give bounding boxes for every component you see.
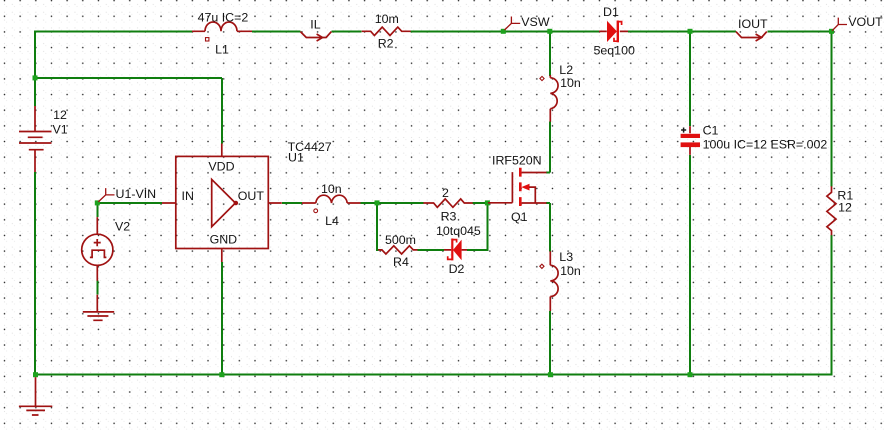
- svg-text:C1: C1: [703, 124, 719, 138]
- current probe IOUT: [736, 32, 767, 41]
- svg-text:GND: GND: [210, 232, 238, 246]
- wire vdd feed: [35, 78, 222, 144]
- source V2: [82, 217, 113, 281]
- svg-text:100u IC=12 ESR=.002: 100u IC=12 ESR=.002: [703, 137, 828, 151]
- diode D1: [599, 21, 628, 43]
- wire u1 gnd drop: [221, 262, 223, 375]
- node junction C1 top: [688, 29, 693, 34]
- svg-text:10n: 10n: [560, 264, 581, 278]
- net flag U1-VIN: [98, 188, 114, 202]
- wire signal row: [97, 202, 488, 204]
- svg-text:V1: V1: [53, 123, 68, 137]
- svg-text:Q1: Q1: [511, 210, 528, 224]
- wire r4 d2 branch: [377, 202, 487, 251]
- svg-text:L4: L4: [325, 214, 339, 228]
- svg-text:D2: D2: [449, 262, 465, 276]
- op-amp driver U1 TC4427: [162, 144, 282, 263]
- svg-text:10n: 10n: [321, 182, 342, 196]
- svg-text:10m: 10m: [375, 12, 399, 26]
- svg-text:2: 2: [442, 186, 449, 200]
- resistor R1: [827, 186, 836, 235]
- wire vsw branch: [546, 31, 550, 375]
- wire left rail: [34, 30, 36, 375]
- net flag VSW: [505, 17, 521, 31]
- wire top rail: [34, 30, 832, 32]
- svg-text:VOUT: VOUT: [848, 15, 883, 29]
- wire right rail: [831, 31, 833, 375]
- svg-text:V2: V2: [115, 220, 130, 234]
- inductor L1: [192, 22, 252, 41]
- ground (V2): [83, 295, 114, 321]
- resistor R2: [362, 27, 411, 35]
- inductor L2: [540, 75, 558, 122]
- node junction ground rail left: [33, 372, 38, 377]
- svg-text:47u IC=2: 47u IC=2: [198, 10, 249, 24]
- inductor L4: [302, 195, 361, 213]
- svg-text:5eq100: 5eq100: [594, 44, 635, 58]
- transistor Q1 IRF520N: [488, 168, 547, 206]
- svg-text:12: 12: [838, 200, 852, 214]
- wire v2 branch: [96, 204, 98, 295]
- svg-text:500m: 500m: [385, 233, 416, 247]
- svg-text:U1: U1: [288, 151, 304, 165]
- node junction R3/D2 right (gate): [485, 200, 490, 205]
- svg-text:R3: R3: [441, 210, 457, 224]
- svg-text:OUT: OUT: [238, 189, 265, 203]
- node junction L2 top: [547, 29, 552, 34]
- wire bottom rail: [34, 374, 833, 376]
- svg-text:10tq045: 10tq045: [436, 224, 481, 238]
- node junction V1 top tap: [33, 75, 38, 80]
- svg-text:IN: IN: [182, 189, 194, 203]
- current probe IL: [300, 32, 331, 41]
- svg-text:U1-VIN: U1-VIN: [116, 187, 157, 201]
- inductor L3: [540, 251, 558, 311]
- ground (main rail): [19, 377, 52, 415]
- svg-text:VDD: VDD: [208, 160, 234, 174]
- node junction U1-VIN / V2 tap: [95, 200, 100, 205]
- battery V1: [19, 106, 52, 172]
- svg-text:IL: IL: [310, 18, 320, 32]
- svg-text:L3: L3: [559, 250, 573, 264]
- diode D2: [444, 239, 467, 261]
- resistor R4: [378, 246, 417, 254]
- node VOUT anchor junction: [829, 29, 834, 34]
- svg-text:10n: 10n: [560, 76, 581, 90]
- node junction L3 bottom rail: [548, 372, 553, 377]
- node VSW anchor junction: [501, 29, 506, 34]
- svg-text:L1: L1: [215, 43, 229, 57]
- svg-text:12: 12: [53, 108, 67, 122]
- svg-text:D1: D1: [603, 5, 619, 19]
- node junction C1 bottom rail: [688, 372, 693, 377]
- svg-text:IOUT: IOUT: [738, 17, 768, 31]
- svg-text:L2: L2: [559, 63, 573, 77]
- node junction R3/R4 left: [375, 200, 380, 205]
- node junction U1 GND rail: [219, 372, 224, 377]
- svg-text:R4: R4: [393, 255, 409, 269]
- capacitor C1: [681, 126, 700, 155]
- svg-text:IRF520N: IRF520N: [492, 154, 542, 168]
- resistor R3: [423, 199, 472, 207]
- net flag VOUT: [832, 18, 847, 31]
- svg-text:R2: R2: [378, 37, 394, 51]
- svg-text:VSW: VSW: [521, 15, 550, 29]
- wire c1 branch: [689, 30, 691, 375]
